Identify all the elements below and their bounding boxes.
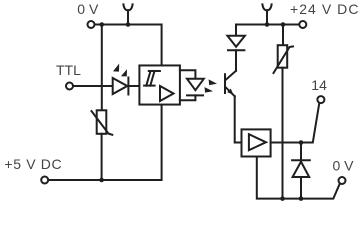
wire emitter to amplifier	[235, 96, 242, 142]
terminal +5 V DC	[41, 177, 48, 184]
wire varistor to +5V rail	[101, 134, 103, 180]
wire +5V rail to Schmitt box bottom	[49, 105, 162, 180]
LED D1 emission arrows	[113, 64, 127, 77]
wire amplifier to 0V rail	[257, 157, 340, 199]
wire varistor right down to 0V rail	[282, 68, 284, 199]
junction output node	[299, 140, 304, 145]
wire amplifier output to terminal 14	[271, 104, 320, 143]
svg-text:+5 V DC: +5 V DC	[4, 156, 62, 172]
svg-text:0 V: 0 V	[77, 1, 99, 17]
amplifier triangle in U1	[160, 86, 174, 101]
wire 0V junction down to varistor	[101, 25, 103, 111]
svg-text:TTL: TTL	[56, 62, 81, 78]
varistor right	[274, 25, 294, 74]
junction at +5V rail	[99, 178, 104, 183]
junction varistor right at +24V rail	[281, 22, 286, 27]
wire TTL to box	[74, 85, 140, 87]
svg-text:+24 V DC: +24 V DC	[290, 1, 360, 17]
svg-text:0 V: 0 V	[333, 158, 355, 174]
amplifier triangle in U2	[249, 134, 266, 150]
wire 0V rail to Schmitt box top	[95, 25, 161, 66]
terminal 14	[317, 96, 324, 103]
LED D1	[113, 78, 129, 95]
terminal TTL	[66, 83, 73, 90]
optocoupler LED D2	[180, 70, 204, 100]
varistor left	[92, 110, 113, 135]
shield symbol right	[262, 4, 271, 26]
junction at 0V rail	[100, 22, 105, 27]
hysteresis symbol	[144, 71, 160, 86]
terminal 0 V (right)	[339, 177, 346, 184]
diode D3 top right	[227, 25, 245, 71]
diode D4 bottom right	[292, 143, 310, 199]
terminal +24 V DC	[299, 21, 306, 28]
phototransistor Q1	[225, 71, 236, 96]
terminal 0 V (left)	[88, 21, 95, 28]
svg-text:14: 14	[311, 77, 327, 93]
junction varistor at 0V rail	[280, 196, 285, 201]
junction diode at 0V rail	[299, 196, 304, 201]
shield symbol left	[123, 4, 132, 26]
wire +24V rail	[236, 24, 299, 26]
LED D2 emission arrows	[205, 79, 218, 92]
Schmitt trigger box U1	[139, 65, 180, 104]
amplifier box U2	[242, 129, 271, 156]
